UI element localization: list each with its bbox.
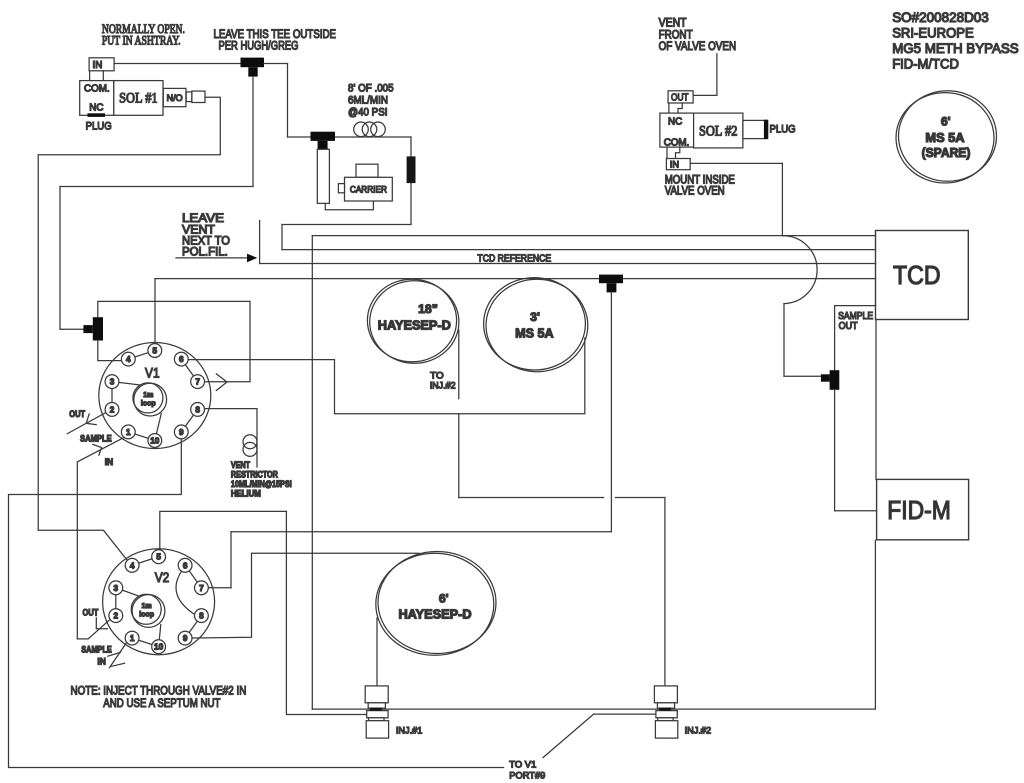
svg-text:VENT: VENT (231, 460, 250, 470)
wire tee4 down (834, 390, 836, 511)
svg-text:HELIUM: HELIUM (231, 489, 261, 499)
SOL#1 N/O connector nut (192, 91, 205, 102)
V2 port 5 (152, 550, 166, 564)
svg-text:PER HUGH/GREG: PER HUGH/GREG (219, 38, 299, 52)
carrier regulator top box (356, 164, 378, 177)
tick on V1 sample in (93, 444, 102, 455)
svg-text:SAMPLE: SAMPLE (80, 434, 112, 444)
svg-text:PLUG: PLUG (86, 121, 112, 133)
svg-text:OUT: OUT (839, 321, 858, 332)
V2 link port10 to loop (159, 625, 161, 647)
tee1 stem wire down (252, 77, 254, 187)
V1 sample loop 1m (133, 383, 163, 413)
wire V2 port2 out from V1 (already drawn); V2 out tick (96, 618, 107, 629)
svg-text:3': 3' (530, 310, 540, 324)
V2 internal link 1-10 (132, 638, 159, 647)
wire V1 port6 to 3ft column (181, 338, 585, 414)
svg-text:HAYESEP-D: HAYESEP-D (378, 317, 451, 332)
svg-text:OUT: OUT (83, 608, 99, 618)
svg-text:8: 8 (199, 612, 204, 621)
solenoid SOL#1 IN port box (89, 58, 114, 71)
wire V1 port2 out (vent) (67, 413, 106, 434)
svg-text:FID-M: FID-M (887, 497, 951, 525)
svg-text:FID-M/TCD: FID-M/TCD (892, 57, 959, 72)
V2 port 10 (152, 640, 166, 654)
svg-text:MG5 METH BYPASS: MG5 METH BYPASS (892, 41, 1019, 56)
svg-text:MS 5A: MS 5A (515, 325, 554, 340)
svg-text:8' OF .005: 8' OF .005 (348, 82, 394, 94)
svg-text:1: 1 (130, 634, 135, 643)
svg-text:SAMPLE: SAMPLE (81, 645, 112, 655)
wire tee5 stem down (610, 292, 612, 531)
svg-text:10: 10 (150, 437, 160, 446)
inline restrictor (black) (407, 156, 416, 183)
ticks on V2 sample in (108, 652, 121, 656)
detector box TCD (876, 231, 969, 320)
svg-text:7: 7 (195, 378, 200, 387)
wire TCD sample out (835, 305, 876, 307)
branch wire down to INJ#2 (458, 414, 460, 498)
V1 internal link 4-5 (128, 351, 155, 360)
svg-text:3: 3 (114, 584, 119, 593)
SOL#1 N/O port box (163, 88, 186, 106)
wire into V2 port7 (201, 587, 231, 589)
valve V1 body (99, 343, 211, 449)
tee fitting T5 on L4 (599, 275, 623, 293)
svg-text:@40 PSI: @40 PSI (348, 107, 388, 119)
wire right toward INJ#2 (gap at crossing) (459, 497, 604, 499)
wire vent to TCD (L3) (260, 263, 876, 265)
svg-text:SRI-EUROPE: SRI-EUROPE (892, 25, 974, 40)
wire V2 port5 riser to INJ#1 (160, 511, 367, 714)
svg-text:COM.: COM. (84, 83, 110, 94)
svg-text:SO#200828D03: SO#200828D03 (892, 10, 989, 25)
V1 port 7 (191, 375, 205, 389)
V1 link port10 to loop (155, 414, 162, 441)
svg-text:TCD REFERENCE: TCD REFERENCE (477, 254, 551, 265)
svg-text:AND USE A SEPTUM NUT: AND USE A SEPTUM NUT (103, 696, 221, 710)
V2 internal link 4-5 (132, 557, 159, 566)
svg-text:INJ.#2: INJ.#2 (430, 379, 456, 390)
wire down to INJ#2 top (664, 498, 666, 685)
SOL#2 OUT port box (668, 91, 693, 103)
wire injector manifold to TCD (L1) (312, 235, 875, 237)
svg-text:IN: IN (97, 657, 106, 667)
SOL#2 COM-to-IN links (666, 147, 668, 158)
SOL#2 IN port box (666, 159, 690, 170)
svg-text:4: 4 (130, 561, 135, 570)
crossover hop arc (SOL#2 line over TCD lines) (782, 236, 817, 304)
wire valve1 port5 line to TCD (L4) (155, 278, 876, 280)
wire V1 port8 to vent restrictor (198, 409, 257, 467)
V1 port 2 (105, 403, 119, 417)
V1 port 8 (191, 403, 205, 417)
svg-text:TCD: TCD (893, 262, 941, 290)
carrier left nub box (338, 184, 344, 193)
wire down to tee4 (834, 306, 836, 371)
wire injector rail to FID-M (312, 540, 875, 709)
wire TCD bottom to FID-M top (875, 320, 877, 480)
svg-text:INJ.#2: INJ.#2 (685, 725, 712, 736)
SOL#1 NC plug bar (88, 113, 106, 117)
V1 port 1 (121, 425, 135, 439)
svg-text:PORT#9: PORT#9 (509, 769, 545, 780)
svg-text:POL.FIL.: POL.FIL. (182, 245, 228, 259)
wire left to corner (282, 224, 411, 226)
wire tee3 bottom to V1 port4 (98, 341, 129, 361)
wire hop to sample-out tee level (783, 304, 785, 377)
SOL#2 NC/COM body box (660, 113, 694, 147)
V2 port 3 (109, 581, 123, 595)
tee fitting T3 (near V1) (83, 317, 103, 340)
V2 port 9 (178, 631, 192, 645)
spare column coil 6ft MS 5A (896, 93, 994, 183)
V2 port 8 (195, 609, 209, 623)
V1 port 10 (148, 434, 162, 448)
V2 internal link 8-9 (185, 616, 201, 639)
svg-text:PUT IN ASHTRAY.: PUT IN ASHTRAY. (102, 32, 181, 47)
wire into tee3 stem (60, 328, 83, 330)
V1 port 5 (148, 344, 162, 358)
wire V1 port5 riser (154, 279, 156, 351)
svg-text:RESTRICTOR: RESTRICTOR (231, 470, 278, 480)
wire tee2 to restrictor (under coil) (335, 136, 411, 138)
V1 internal link 2-3 (111, 382, 113, 410)
svg-text:6ML/MIN: 6ML/MIN (348, 94, 388, 106)
svg-text:TO V1: TO V1 (509, 758, 536, 769)
V1 link port3 to loop (112, 382, 142, 386)
V1 port 4 (121, 352, 135, 366)
wire restrictor down (410, 137, 412, 225)
svg-text:(SPARE): (SPARE) (922, 146, 971, 160)
wire to tee2 (288, 136, 311, 138)
wire SOL#1 IN to tee1 (114, 63, 240, 65)
wire V2 port9 to 6ft column (185, 553, 419, 638)
SOL#1 IN-to-body link jog (102, 71, 104, 81)
svg-text:INJ.#1: INJ.#1 (396, 725, 423, 736)
V2 port 1 (125, 631, 139, 645)
svg-text:1m: 1m (142, 603, 152, 610)
wire down to carrier line (287, 64, 289, 138)
svg-text:loop: loop (139, 612, 154, 619)
svg-text:5: 5 (156, 553, 161, 562)
detector box FID-M (877, 479, 969, 539)
wire N/O to V2 port4 (long left run) (38, 97, 220, 563)
svg-text:NC: NC (89, 102, 103, 113)
svg-text:2: 2 (110, 405, 115, 414)
svg-text:6': 6' (941, 114, 951, 128)
V2 port 7 (195, 581, 209, 595)
V1 internal link 6-7 (181, 359, 197, 382)
wire to-V1-port9 stub into INJ#2 (594, 713, 656, 715)
svg-text:8: 8 (195, 405, 200, 414)
injector fitting INJ.#2 (654, 686, 677, 738)
svg-text:PLUG: PLUG (770, 123, 796, 135)
tee fitting T2 (311, 132, 336, 150)
svg-text:SOL #2: SOL #2 (699, 124, 738, 140)
flow arrow on port7 wire (216, 374, 227, 391)
wire tee3 top loop (98, 301, 250, 381)
svg-text:NC: NC (668, 116, 682, 127)
svg-text:HAYESEP-D: HAYESEP-D (398, 607, 471, 622)
wire left at y186 (60, 186, 253, 188)
V1 internal link 8-9 (181, 409, 197, 432)
V2 internal link 6-7 (185, 565, 201, 588)
svg-text:3: 3 (110, 378, 115, 387)
wire left to V2 port7 riser (231, 531, 611, 533)
svg-text:V2: V2 (155, 570, 170, 585)
leader arrow to vent (176, 257, 248, 259)
column tube below tee2 (317, 149, 329, 203)
svg-text:loop: loop (141, 400, 156, 407)
wire down to V2 port7 level (230, 532, 232, 588)
svg-text:N/O: N/O (167, 93, 183, 103)
V2 bypass arc 6-8 (176, 570, 195, 614)
SOL#2 plug end bar (764, 120, 768, 139)
wire down to TCD carrier line (281, 225, 283, 250)
svg-text:6': 6' (439, 592, 449, 606)
svg-text:IN: IN (105, 457, 114, 467)
vent restrictor coil (243, 435, 257, 449)
solenoid SOL#1 body (114, 81, 163, 116)
carrier supply box (345, 177, 393, 201)
injector fitting INJ.#1 (365, 686, 388, 738)
svg-text:OUT: OUT (69, 409, 85, 419)
svg-text:10ML/MIN@15PSI: 10ML/MIN@15PSI (231, 479, 292, 489)
V2 link port3 to loop (116, 588, 141, 597)
column coil 3ft MS 5A (486, 279, 588, 371)
wire into tee4 stem (784, 375, 821, 377)
valve V2 body (103, 549, 215, 655)
V2 sample loop 1m (131, 594, 161, 624)
svg-text:9: 9 (179, 428, 184, 437)
wire 6ft column down to INJ#1 (376, 618, 378, 686)
svg-text:V1: V1 (145, 366, 160, 381)
SOL#2 OUT-to-body links (668, 103, 670, 113)
wire SOL#2 IN down (781, 163, 783, 235)
svg-text:6: 6 (179, 355, 184, 364)
svg-text:1m: 1m (143, 392, 153, 399)
V1 port 9 (174, 425, 188, 439)
coil loop symbol (3 circles) (354, 122, 369, 137)
wire tee1 right (264, 63, 288, 65)
svg-text:2: 2 (114, 612, 119, 621)
wire carrier to TCD (L2) (282, 249, 876, 251)
svg-text:5: 5 (153, 347, 158, 356)
SOL#1 N/O connector small (186, 92, 192, 102)
svg-text:4: 4 (126, 355, 131, 364)
svg-text:6: 6 (183, 561, 188, 570)
svg-text:10: 10 (154, 643, 164, 652)
V2 internal link 2-3 (115, 588, 117, 616)
wire long vertical to injectors (311, 236, 313, 709)
svg-text:IN: IN (93, 60, 103, 71)
svg-text:9: 9 (183, 634, 188, 643)
svg-text:18”: 18” (418, 302, 438, 316)
svg-text:MS 5A: MS 5A (925, 131, 964, 145)
SOL#1 COM/NC body box (80, 81, 114, 116)
wire SOL#2 IN right (690, 162, 782, 164)
V1 internal link 1-10 (128, 432, 155, 441)
wire V2 port1 sample in (open) (110, 641, 129, 668)
column coil 18in HAYESEP-D (370, 281, 459, 364)
V2 port 2 (109, 609, 123, 623)
wire V1 sample in run to V2 out (77, 437, 124, 639)
V2 port 4 (125, 558, 139, 572)
column coil 6ft HAYESEP-D (378, 552, 496, 654)
V2 port 6 (178, 558, 192, 572)
solenoid SOL#2 body (694, 113, 743, 148)
wire down left side (59, 187, 61, 330)
ticks on V1 out (86, 414, 96, 425)
vent stub (pol.fil vent) (259, 221, 261, 264)
svg-text:IN: IN (670, 160, 679, 170)
V1 port 6 (174, 352, 188, 366)
wire into FID-M side (835, 510, 877, 512)
link column to carrier (325, 201, 373, 210)
SOL#2 plug stub (743, 120, 766, 138)
svg-text:VALVE OVEN: VALVE OVEN (665, 185, 725, 197)
svg-text:1: 1 (126, 428, 131, 437)
wire SOL#2 OUT to vent (693, 54, 717, 96)
tee fitting T1 (outside tee) (241, 58, 265, 77)
svg-text:SOL #1: SOL #1 (119, 91, 158, 107)
tee fitting T4 (sample out) (821, 370, 839, 390)
svg-text:7: 7 (199, 584, 204, 593)
V1 port 3 (105, 375, 119, 389)
svg-text:OF VALVE OVEN: OF VALVE OVEN (659, 39, 737, 53)
leader line TO V1 PORT#9 (543, 714, 594, 758)
wire V1 port9 to bottom rail (9, 432, 504, 768)
SOL#1 IN-to-body link left (89, 71, 91, 81)
svg-text:CARRIER: CARRIER (350, 184, 387, 194)
svg-text:OUT: OUT (671, 93, 689, 104)
wire 18in column to INJ#2 (open, labelled) (458, 330, 460, 399)
